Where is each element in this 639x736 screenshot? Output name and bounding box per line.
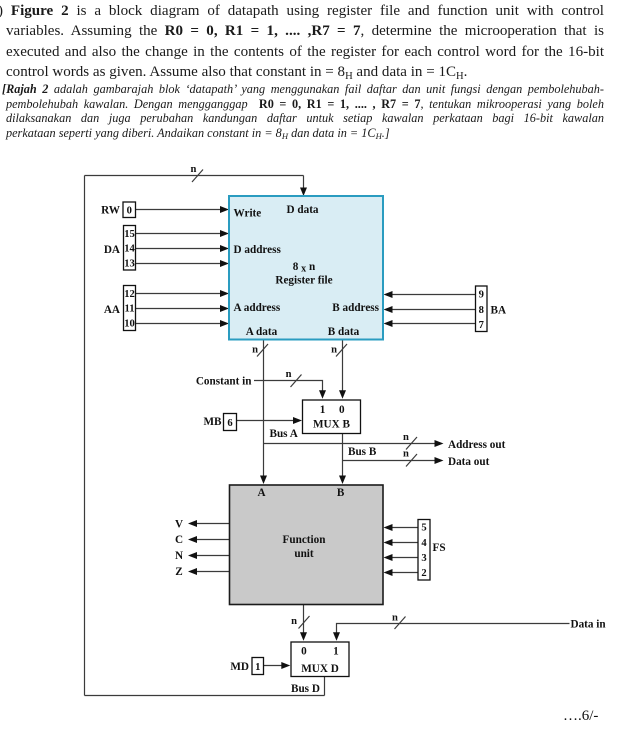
svg-text:15: 15	[124, 229, 135, 240]
svg-text:n: n	[191, 164, 197, 175]
bus slash n on A data	[257, 344, 268, 357]
svg-text:6: 6	[227, 418, 232, 429]
wire Bus B MUX B output drop	[342, 434, 344, 477]
svg-text:7: 7	[479, 320, 485, 331]
svg-text:B: B	[337, 487, 345, 499]
svg-text:Data in: Data in	[571, 618, 607, 630]
bus slash n on Data in	[395, 617, 406, 630]
arrow B address bit8	[384, 306, 393, 313]
wire D data drop	[303, 176, 305, 195]
control box AA bits 12-10	[124, 286, 136, 331]
wire DA bit15	[136, 233, 221, 235]
svg-text:n: n	[331, 345, 337, 356]
arrow MUX B input 1	[319, 390, 326, 399]
svg-text:MUX B: MUX B	[313, 419, 351, 431]
wire DA bit14	[136, 248, 221, 250]
wire Bus B horizontal to Data out	[343, 460, 436, 462]
svg-text:Bus D: Bus D	[291, 683, 320, 695]
svg-text:5: 5	[421, 523, 426, 534]
function unit U2	[230, 485, 384, 605]
arrow Data out	[435, 457, 444, 464]
svg-text:n: n	[286, 369, 292, 380]
svg-text:0: 0	[301, 646, 307, 658]
arrow MUX B input 0	[339, 390, 346, 399]
svg-text:1: 1	[255, 662, 260, 673]
svg-text:RW: RW	[101, 205, 121, 217]
wire MB to MUX B select	[237, 420, 294, 422]
wire BA bit8	[392, 309, 476, 311]
arrow Address out	[435, 440, 444, 447]
svg-text:9: 9	[479, 290, 484, 301]
wire AA bit10	[136, 323, 221, 325]
control box RW bit0	[123, 202, 136, 218]
svg-text:11: 11	[124, 304, 134, 315]
bus slash n top	[192, 170, 203, 183]
wire Constant in horizontal	[254, 381, 323, 391]
svg-text:V: V	[175, 519, 183, 531]
arrow MD select	[281, 662, 290, 669]
wire FS bit4	[392, 542, 418, 544]
svg-text:unit: unit	[294, 548, 314, 560]
svg-text:Data out: Data out	[448, 456, 490, 468]
control box DA bits 15-13	[124, 226, 136, 271]
arrow A address bit12	[220, 290, 229, 297]
arrow A address bit11	[220, 305, 229, 312]
svg-text:BA: BA	[491, 304, 507, 316]
arrow MB select	[293, 417, 302, 424]
wire RW to Write	[136, 209, 221, 211]
arrow FS bit4	[384, 539, 393, 546]
svg-text:B address: B address	[332, 302, 379, 314]
control box MD bit1	[252, 658, 264, 675]
arrow Function A input	[260, 476, 267, 485]
wire FS bit3	[392, 557, 418, 559]
arrow FS bit2	[384, 569, 393, 576]
svg-text:12: 12	[124, 289, 135, 300]
svg-text:Function: Function	[283, 534, 327, 546]
wire V flag	[196, 523, 230, 525]
arrow D address bit13	[220, 260, 229, 267]
wire Bus A horizontal to Address out	[264, 443, 436, 445]
svg-text:14: 14	[124, 244, 135, 255]
svg-text:n: n	[403, 432, 409, 443]
wire Bus D bottom run	[85, 695, 325, 697]
wire A data vertical	[263, 340, 265, 477]
arrow B address bit9	[384, 291, 393, 298]
svg-text:D address: D address	[234, 244, 282, 256]
arrow N out	[188, 552, 197, 559]
svg-text:AA: AA	[104, 304, 120, 316]
wire B data vertical	[342, 340, 344, 391]
arrow B address bit7	[384, 320, 393, 327]
svg-text:10: 10	[124, 319, 135, 330]
arrow into D data	[300, 188, 307, 197]
wire Bus D output drop from MUX D	[324, 677, 326, 696]
svg-text:N: N	[175, 550, 183, 562]
wire AA bit11	[136, 308, 221, 310]
svg-text:13: 13	[124, 258, 135, 269]
wire BA bit7	[392, 323, 476, 325]
wire FS bit5	[392, 527, 418, 529]
arrow A address bit10	[220, 320, 229, 327]
svg-text:Z: Z	[175, 566, 182, 578]
svg-text:8: 8	[479, 305, 484, 316]
arrow FS bit3	[384, 554, 393, 561]
svg-text:2: 2	[421, 568, 426, 579]
svg-text:8 x n: 8 x n	[293, 261, 316, 275]
svg-text:1: 1	[320, 404, 326, 416]
svg-text:C: C	[175, 534, 183, 546]
arrow V out	[188, 520, 197, 527]
svg-text:Constant in: Constant in	[196, 375, 252, 387]
mux D	[291, 642, 349, 677]
svg-text:A address: A address	[234, 302, 281, 314]
svg-text:Address out: Address out	[448, 439, 506, 451]
svg-text:A data: A data	[246, 326, 278, 338]
svg-text:Bus A: Bus A	[270, 428, 298, 440]
svg-text:Register file: Register file	[275, 275, 332, 287]
arrow Write input	[220, 206, 229, 213]
bus slash n on B data	[336, 344, 347, 357]
svg-text:Write: Write	[234, 208, 262, 220]
svg-text:D data: D data	[287, 204, 319, 216]
bus slash n on Bus A	[406, 437, 417, 450]
wire MD to MUX D select	[264, 665, 283, 667]
wire FS bit2	[392, 572, 418, 574]
wire BA bit9	[392, 294, 476, 296]
arrow MUX D input 1	[333, 632, 340, 641]
wire AA bit12	[136, 293, 221, 295]
register file U1	[229, 196, 383, 340]
wire Bus D left vertical run	[84, 176, 86, 696]
control box MB bit6	[224, 414, 237, 431]
bus slash n on Bus B	[406, 454, 417, 467]
svg-text:4: 4	[421, 538, 427, 549]
svg-text:MUX D: MUX D	[301, 663, 339, 675]
svg-text:MD: MD	[230, 661, 249, 673]
wire Z flag	[196, 571, 230, 573]
svg-text:n: n	[252, 345, 258, 356]
svg-text:B data: B data	[328, 326, 360, 338]
wire Bus D top run	[85, 175, 304, 177]
wire DA bit13	[136, 263, 221, 265]
svg-text:n: n	[403, 449, 409, 460]
wire C flag	[196, 539, 230, 541]
wire N flag	[196, 555, 230, 557]
svg-text:n: n	[392, 613, 398, 624]
arrow Z out	[188, 568, 197, 575]
wire Data in	[337, 624, 570, 639]
svg-text:0: 0	[339, 404, 345, 416]
arrow D address bit15	[220, 230, 229, 237]
bus slash n on F output	[299, 616, 310, 629]
arrow C out	[188, 536, 197, 543]
bus slash n on Constant in	[291, 375, 302, 388]
svg-text:FS: FS	[433, 542, 446, 554]
arrow D address bit14	[220, 245, 229, 252]
svg-text:0: 0	[127, 206, 132, 217]
control box FS bits 5-2	[418, 520, 430, 581]
svg-text:DA: DA	[104, 244, 120, 256]
wire Function unit output drop	[303, 605, 305, 639]
svg-text:n: n	[291, 616, 297, 627]
mux B	[303, 400, 361, 434]
svg-text:3: 3	[421, 553, 426, 564]
svg-text:MB: MB	[203, 416, 222, 428]
svg-text:A: A	[257, 487, 265, 499]
svg-text:Bus B: Bus B	[348, 446, 377, 458]
arrow Function B input	[339, 476, 346, 485]
arrow MUX D input 0	[300, 632, 307, 641]
svg-text:1: 1	[333, 646, 339, 658]
control box BA bits 9-7	[476, 286, 488, 332]
arrow FS bit5	[384, 524, 393, 531]
